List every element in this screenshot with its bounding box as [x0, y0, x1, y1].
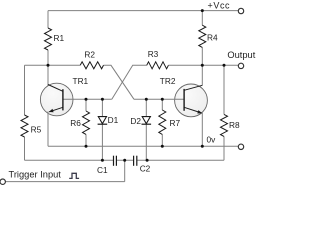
svg-text:0v: 0v	[207, 135, 217, 145]
svg-text:R4: R4	[207, 33, 218, 43]
svg-text:TR1: TR1	[73, 76, 89, 86]
svg-text:R1: R1	[54, 33, 65, 43]
svg-text:C2: C2	[140, 164, 151, 174]
svg-text:C1: C1	[97, 165, 108, 175]
svg-text:D1: D1	[108, 115, 119, 125]
svg-text:R6: R6	[70, 118, 81, 128]
svg-text:TR2: TR2	[160, 76, 176, 86]
svg-text:Trigger Input: Trigger Input	[9, 169, 62, 179]
svg-text:R2: R2	[84, 49, 95, 59]
svg-text:R3: R3	[148, 49, 159, 59]
svg-text:R7: R7	[170, 118, 181, 128]
svg-text:Output: Output	[227, 50, 255, 60]
svg-text:R5: R5	[31, 124, 42, 134]
svg-text:R8: R8	[229, 120, 240, 130]
svg-text:+Vcc: +Vcc	[208, 1, 231, 11]
svg-text:D2: D2	[130, 116, 141, 126]
